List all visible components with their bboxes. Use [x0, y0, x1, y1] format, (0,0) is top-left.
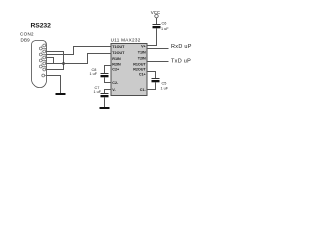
svg-text:C2+: C2+ — [112, 67, 119, 71]
svg-text:1 uF: 1 uF — [94, 90, 102, 94]
wire pin4 step up to T2OUT — [47, 54, 112, 64]
wire gnd pin to ground — [47, 76, 61, 94]
pin 6 circle — [39, 47, 42, 50]
svg-text:RxD uP: RxD uP — [171, 44, 192, 50]
svg-text:C6: C6 — [162, 21, 167, 25]
wire TxD — [147, 61, 169, 63]
pin 9 circle — [39, 65, 42, 68]
pin shield circle — [42, 74, 45, 77]
ground below C7 — [100, 107, 110, 109]
wire pin3 loop tie — [47, 58, 54, 64]
svg-text:TxD uP: TxD uP — [171, 58, 191, 64]
pin 1 circle — [43, 44, 46, 47]
pin 3 circle — [43, 56, 46, 59]
svg-text:V+: V+ — [141, 45, 146, 49]
ground left bar — [56, 93, 66, 95]
svg-text:T2OUT: T2OUT — [112, 51, 125, 55]
svg-text:T2IN: T2IN — [138, 57, 146, 61]
pin 2 circle — [43, 50, 46, 53]
pin 7 circle — [39, 53, 42, 56]
svg-text:U11 MAX232: U11 MAX232 — [111, 38, 141, 43]
svg-text:C1+: C1+ — [139, 72, 146, 76]
svg-text:1 uF: 1 uF — [90, 72, 98, 76]
wire RxD — [147, 48, 169, 50]
wire pin7 step up to T1OUT — [47, 47, 112, 55]
pin 8 circle — [39, 59, 42, 62]
pin 5 circle — [43, 68, 46, 71]
pin 4 circle — [43, 62, 46, 65]
op-amp U11 MAX232 body — [111, 44, 147, 96]
capacitor C7 on V- — [105, 90, 112, 94]
node junction dot — [62, 62, 65, 65]
svg-text:R2OUT: R2OUT — [133, 67, 146, 71]
svg-text:R1IN: R1IN — [112, 57, 121, 61]
svg-text:R1OUT: R1OUT — [133, 62, 146, 66]
connector CON2 DB9 body — [32, 41, 47, 88]
svg-text:C2-: C2- — [112, 81, 119, 85]
svg-text:CON2: CON2 — [20, 32, 34, 37]
wire pin2 to node V1 — [47, 51, 65, 53]
svg-text:RS232: RS232 — [31, 23, 52, 30]
svg-text:1 uF: 1 uF — [161, 87, 169, 91]
svg-text:R2IN: R2IN — [112, 62, 121, 66]
svg-text:VCC: VCC — [151, 10, 160, 15]
capacitor C5 loop C1+/C1- — [147, 72, 156, 79]
svg-text:1 uF: 1 uF — [161, 27, 169, 31]
svg-text:T1OUT: T1OUT — [112, 45, 125, 49]
svg-text:C5: C5 — [162, 81, 167, 85]
svg-text:C1-: C1- — [140, 88, 147, 92]
wire vertical V1 tie — [63, 52, 65, 70]
capacitor C8 loop C2+/C2- — [105, 66, 112, 74]
svg-text:T1IN: T1IN — [138, 51, 146, 55]
svg-text:DB9: DB9 — [21, 38, 31, 43]
capacitor C6 from VCC to V+ — [156, 18, 158, 25]
wire pin5 to V1 bottom — [47, 69, 65, 71]
